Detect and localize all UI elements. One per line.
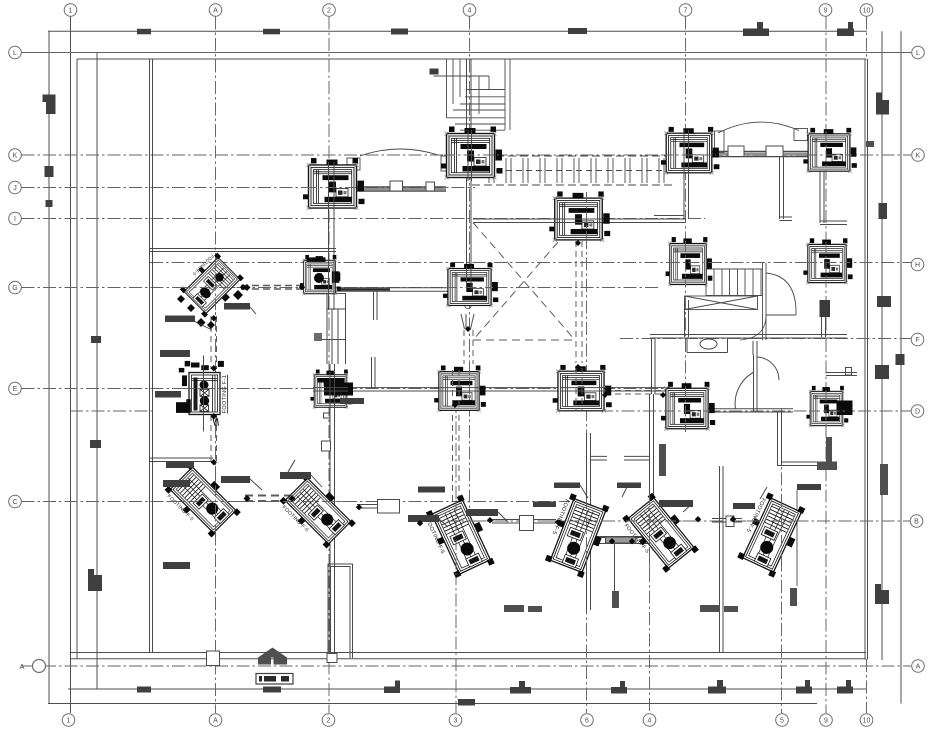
door arc small below stair — [740, 315, 766, 340]
stair landing with cross — [685, 296, 758, 310]
grid C through rotated footings — [168, 501, 355, 503]
wall vertical grid7 upper — [684, 175, 689, 219]
bubble A left (letter + empty circle) — [19, 660, 45, 673]
svg-text:J: J — [13, 185, 17, 192]
tie vertical grid3 footing — [453, 405, 460, 510]
grid line 1 (solid vertical) — [70, 17, 72, 714]
footing small grid2/H — [300, 255, 341, 295]
black bar right of footing F-13 — [837, 401, 853, 416]
grid line C — [22, 501, 571, 503]
wall x721 bottom right — [720, 466, 724, 653]
vertical grids through footings — [216, 131, 827, 575]
wall 2 through footing 2E — [330, 372, 335, 408]
footing F-2 rotated R2 — [275, 471, 358, 554]
wall shaft grid2 — [327, 294, 346, 310]
grid line D — [600, 410, 911, 412]
bubble 10 top — [860, 4, 873, 17]
footing F-4b grid4/E — [434, 365, 486, 412]
grid line E — [22, 388, 701, 390]
svg-text:K: K — [916, 153, 921, 160]
bubble B right — [910, 515, 923, 528]
pilaster J 2 — [426, 182, 435, 191]
wall stub x375 — [374, 291, 378, 320]
svg-text:2: 2 — [327, 8, 331, 15]
wall x588 interior bottom — [587, 433, 591, 610]
grid G through footings — [180, 287, 493, 289]
wall x755 above F to arc — [753, 341, 757, 355]
wall corner at 7/I — [654, 216, 684, 220]
svg-text:4: 4 — [648, 718, 652, 725]
wall I horizontal — [473, 219, 686, 223]
grid line 4 — [469, 17, 471, 546]
top dimension line — [48, 30, 867, 32]
pilaster K 1 — [728, 146, 744, 157]
arc wall right — [718, 122, 799, 133]
small mark top-left of stairs — [866, 141, 874, 147]
bubble 6 bottom — [581, 714, 594, 727]
bubble I left — [9, 212, 22, 225]
toilet ellipse — [700, 339, 717, 349]
bubble 5 bottom — [776, 714, 789, 727]
pilaster bottom wall 1 — [207, 651, 220, 666]
wall K crenellated right — [712, 152, 808, 157]
bubble K right — [912, 149, 925, 162]
grid line I — [22, 218, 706, 220]
wall x757 with door — [754, 355, 758, 411]
wall y373 right of 9 — [826, 373, 857, 376]
svg-text:6: 6 — [585, 718, 589, 725]
bubble E left — [9, 382, 22, 395]
wall y464 right — [778, 462, 838, 466]
svg-text:A: A — [213, 8, 218, 15]
wall F horizontal right — [650, 335, 847, 339]
svg-text:A: A — [213, 718, 218, 725]
bubble C left — [9, 495, 22, 508]
svg-text:D: D — [915, 409, 920, 416]
arc wall left (entry) — [360, 149, 438, 156]
svg-text:FOOTING F-1: FOOTING F-1 — [222, 375, 228, 414]
svg-text:9: 9 — [824, 718, 828, 725]
right dim marks — [876, 100, 889, 115]
wall stub y457 — [591, 456, 608, 460]
bubble 3 bottom — [449, 714, 462, 727]
grid J through footing 2J — [306, 187, 359, 189]
bubble 4 bottom — [643, 714, 656, 727]
svg-text:3: 3 — [454, 718, 458, 725]
wall I through footing 6I — [554, 219, 602, 223]
mark near footing F-9 — [224, 303, 250, 310]
bottom dimension line 1 — [68, 688, 867, 690]
tie E-D dashed — [605, 391, 666, 395]
grid line 10 bottom stub — [866, 659, 868, 713]
footing F-1 vertical at 1/E — [176, 356, 228, 432]
footing F-7 grid2/J — [303, 158, 365, 210]
dark vertical bars — [659, 444, 666, 476]
svg-text:5: 5 — [780, 718, 784, 725]
svg-text:F: F — [915, 337, 919, 344]
svg-text:1: 1 — [69, 8, 73, 15]
svg-text:A: A — [19, 662, 24, 671]
grid line K — [22, 154, 912, 156]
bubble 4 top — [463, 4, 476, 17]
grid line 4b — [649, 440, 651, 713]
footing F-14 grid9/K — [803, 128, 857, 173]
anchor diamonds at tie/wall junctions — [211, 240, 737, 544]
door arc x757 — [757, 357, 779, 380]
tie walls between rotated footings — [492, 520, 556, 524]
wall G-H left horizontal — [305, 288, 448, 291]
wall left interior vertical — [150, 59, 153, 653]
svg-text:I: I — [14, 216, 16, 223]
footing F-3 rotated R3 — [421, 493, 498, 583]
wall x651 below D — [650, 394, 654, 495]
wall y505 right of footing R2 — [357, 505, 400, 509]
wall upper-left horizontal — [150, 249, 336, 252]
left dim marks — [46, 95, 56, 115]
footing F-15b grid7/D — [661, 382, 715, 431]
grid line 10 top stub — [866, 17, 868, 60]
bubble H right — [911, 258, 924, 271]
X brace dashed — [473, 223, 575, 341]
leader lines from dimension bars to footings — [190, 307, 767, 527]
svg-text:4: 4 — [468, 8, 472, 15]
bubble 2 top — [323, 4, 336, 17]
svg-text:9: 9 — [824, 8, 828, 15]
plan border bottom (double) — [70, 653, 866, 659]
door arc D wall — [735, 372, 754, 409]
wall y458 bottom left — [150, 458, 213, 462]
grid K through footings — [444, 154, 852, 156]
grid line 6 — [586, 193, 588, 713]
svg-text:B: B — [914, 519, 919, 526]
wall J crenellated — [356, 187, 446, 191]
bubble 9 top — [819, 4, 832, 17]
tie vertical grid4 below G — [464, 330, 473, 364]
svg-text:1: 1 — [67, 718, 71, 725]
wall y457 segment — [624, 456, 650, 460]
bubble G left — [9, 281, 22, 294]
grid line A-vertical — [215, 17, 217, 714]
grid line 7 — [685, 17, 687, 433]
wall x687 F down to stair — [685, 300, 689, 337]
IVI marks below — [213, 418, 218, 426]
svg-text:K: K — [13, 153, 18, 160]
wall vertical x780 — [780, 157, 793, 221]
tie C dashed pair — [245, 496, 294, 502]
wall below footing F-7/2J — [329, 207, 335, 310]
svg-text:E: E — [13, 386, 18, 393]
plan border left — [76, 59, 78, 659]
bubble 2 bottom — [322, 714, 335, 727]
wall right of stair — [763, 263, 767, 340]
bubble 10 bottom — [860, 714, 873, 727]
bubble L right — [912, 46, 925, 59]
tie vertical A-line lower — [211, 415, 217, 461]
footing F-6 grid6/I — [549, 191, 610, 241]
bubble F right — [911, 333, 924, 346]
anchor circles below footing 4G — [465, 292, 471, 298]
walkway ladder strip — [472, 155, 676, 157]
svg-text:10: 10 — [863, 718, 871, 725]
svg-text:A: A — [916, 664, 921, 671]
grid line 5 — [781, 408, 783, 713]
dark hatch chunk x825 — [820, 300, 831, 317]
svg-text:7: 7 — [684, 8, 688, 15]
grid B through rotated footings — [428, 520, 800, 522]
bubble A bottom — [209, 714, 222, 727]
centre line through footing — [203, 356, 205, 432]
wall stub x373 above E — [372, 357, 376, 388]
grid line L — [22, 52, 912, 54]
footing F-9 rotated at A/G — [176, 249, 247, 320]
right dimension line 1 — [881, 31, 883, 660]
grid D through footings — [664, 410, 845, 412]
gray square center — [314, 333, 322, 341]
footing F-5 rotated R1 — [160, 460, 243, 543]
stair mark — [430, 69, 439, 75]
grid line B — [430, 520, 911, 522]
left dimension line — [48, 31, 50, 703]
wall below F x653 — [652, 338, 656, 394]
wall grid4 through footing 4K — [468, 130, 472, 181]
wall x823 F to H area — [822, 300, 826, 337]
footing F-14b grid9/H — [803, 238, 852, 284]
bubble K left — [9, 149, 22, 162]
svg-text:C: C — [12, 499, 17, 506]
wall grid2 through footings 2J,2H — [329, 162, 335, 295]
dashed ties through footings — [453, 368, 583, 410]
top dim marks — [137, 29, 151, 35]
marks above rotated footings — [221, 476, 250, 483]
plan border right (double) — [865, 59, 868, 660]
footing F-4 grid2/E — [310, 370, 352, 409]
bottom dimension line 2 — [48, 703, 817, 705]
footing F-8 grid4/K — [441, 127, 503, 180]
footing F-13 grid9/D — [806, 386, 848, 427]
stair top-center — [447, 59, 511, 130]
svg-text:2: 2 — [327, 718, 331, 725]
tie G dashed pair — [241, 286, 304, 290]
svg-text:10: 10 — [863, 8, 871, 15]
pilaster bottom wall 2 — [327, 654, 337, 663]
wall D horizontal — [708, 409, 793, 412]
pilaster K 2 — [766, 146, 783, 157]
door arc right of stair — [766, 273, 796, 315]
bubble 1 top — [64, 4, 77, 17]
grid line F — [620, 338, 911, 340]
interior marks near left wall — [165, 316, 195, 323]
wall 4 into footing 4G — [467, 266, 472, 290]
bubble J left — [9, 181, 22, 194]
footing F-16 grid7/K — [661, 127, 719, 175]
IVI mark — [461, 314, 474, 329]
svg-text:L: L — [13, 50, 17, 57]
svg-text:L: L — [916, 50, 920, 57]
bubble A top — [209, 4, 222, 17]
bubble 1 bottom — [62, 714, 75, 727]
footing F-4r rotated R6 — [732, 489, 809, 579]
wall grid2 lower vertical — [330, 364, 335, 653]
bubble 7 top — [679, 4, 692, 17]
door recess bottom center — [328, 564, 353, 658]
footing F-3c rotated R5 — [618, 490, 702, 578]
svg-text:H: H — [915, 262, 920, 269]
dark block on y464 wall — [817, 462, 837, 471]
bottom dim marks — [137, 687, 151, 693]
svg-text:G: G — [12, 285, 17, 292]
stair middle right — [706, 269, 762, 296]
wall x780 below D — [778, 412, 782, 466]
wall closet below F — [687, 338, 728, 353]
bubble L left — [9, 46, 22, 59]
pilaster J 1 — [390, 181, 403, 191]
bubble 9 bottom — [820, 714, 833, 727]
pilaster at y505 — [378, 500, 400, 514]
wall grid4 vertical pair — [467, 59, 472, 268]
wall E through footings — [313, 388, 606, 391]
footing F-8b grid6/E — [553, 365, 612, 413]
scale bar — [256, 674, 293, 685]
tie vertical grid6 — [576, 241, 582, 363]
wall grid7 through footing 7K — [684, 130, 689, 176]
grid line 2 — [328, 17, 330, 714]
grid line A — [22, 665, 912, 667]
tie vertical A-line upper — [211, 316, 217, 369]
bubble D right — [911, 405, 924, 418]
grid line J — [22, 187, 476, 189]
right dimension line 2 — [900, 31, 902, 703]
footing F-15 grid7/H — [666, 237, 713, 286]
wall vertical x822 — [820, 157, 847, 225]
footing F-7b grid4/G — [443, 263, 498, 308]
plan border top — [77, 58, 867, 60]
grid E through footing F-1 — [184, 388, 220, 390]
small sq near 9/F — [846, 368, 852, 376]
footing F-3b rotated R4 — [540, 491, 613, 580]
wall E horizontal — [347, 388, 670, 391]
bubble A right — [912, 660, 925, 673]
grid line 3 — [455, 400, 457, 713]
line right of text — [227, 375, 229, 414]
left dimension line 2 — [96, 53, 98, 690]
marks interior bottom — [340, 398, 364, 404]
grid line H — [150, 262, 911, 264]
grid line G — [22, 287, 661, 289]
grid H through footings — [669, 262, 850, 264]
north arrow — [258, 648, 287, 665]
grid line 9 — [825, 17, 827, 714]
